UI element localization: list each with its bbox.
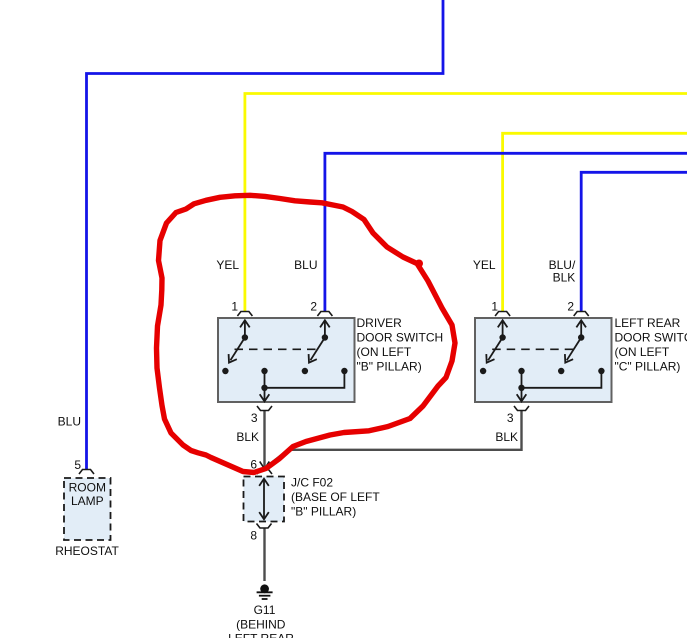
ground G11 symbol	[257, 584, 273, 599]
left rear switch arrow contact pin 1	[498, 320, 508, 337]
svg-text:"B" PILLAR): "B" PILLAR)	[291, 505, 356, 519]
left rear switch common contact dot	[518, 368, 524, 374]
wire BLU from top to room lamp rheostat pin 5	[87, 0, 444, 470]
driver switch arm 1 with arrowhead	[229, 338, 245, 363]
svg-text:"B" PILLAR): "B" PILLAR)	[357, 360, 422, 374]
driver switch right contact dot	[341, 368, 347, 374]
left rear switch arrow contact pin 2	[576, 320, 586, 337]
svg-text:BLU: BLU	[294, 258, 317, 272]
J/C F02 internal double-ended arrow	[259, 479, 269, 520]
svg-text:8: 8	[250, 529, 257, 543]
svg-text:(BEHIND: (BEHIND	[236, 618, 286, 632]
driver switch common contact dot	[261, 368, 267, 374]
svg-text:BLK: BLK	[495, 430, 518, 444]
svg-text:1: 1	[491, 300, 498, 314]
room lamp rheostat box	[64, 478, 111, 540]
svg-text:3: 3	[507, 411, 514, 425]
svg-text:LEFT REAR: LEFT REAR	[615, 316, 681, 330]
driver switch lower contact dot (mid-left)	[302, 368, 308, 374]
wire BLU/BLK to left rear door switch pin 2	[581, 172, 687, 311]
svg-text:5: 5	[74, 458, 81, 472]
svg-text:(BASE OF LEFT: (BASE OF LEFT	[291, 490, 380, 504]
driver switch arm 2 with arrowhead	[309, 338, 325, 363]
wire BLU to driver door switch pin 2	[325, 153, 687, 311]
red hand-drawn highlight loop around driver door switch	[157, 195, 456, 472]
left rear door switch label text	[615, 316, 687, 374]
connector dome at left rear switch pin 2	[574, 312, 589, 317]
svg-text:DOOR SWITCH: DOOR SWITCH	[615, 331, 687, 345]
svg-text:DOOR SWITCH: DOOR SWITCH	[357, 331, 444, 345]
wire YEL to left rear door switch pin 1	[503, 133, 687, 311]
connector dome at room lamp pin 5	[79, 470, 94, 475]
left rear switch movable contact dot (pin2 side)	[578, 334, 584, 340]
connector dome at left rear switch pin 1	[495, 312, 510, 317]
left rear door switch box	[475, 318, 612, 402]
driver switch common link wire	[265, 371, 345, 388]
driver switch output arrow to pin 3	[260, 388, 270, 402]
left rear switch output arrow to pin 3	[517, 388, 527, 402]
connector dome at driver switch pin 1	[237, 312, 252, 317]
room lamp label text	[69, 481, 106, 509]
driver switch dashed gang line	[235, 348, 319, 350]
left rear switch movable contact dot (pin1 side)	[499, 334, 505, 340]
svg-text:BLK: BLK	[236, 430, 259, 444]
svg-text:G11: G11	[254, 603, 276, 617]
svg-text:ROOM: ROOM	[69, 481, 106, 495]
connector dome at J/C F02 pin 6	[257, 470, 272, 475]
wire YEL to driver door switch pin 1	[245, 94, 687, 312]
svg-text:DRIVER: DRIVER	[357, 316, 403, 330]
left rear switch arm 2 with arrowhead	[565, 338, 581, 363]
driver switch lower contact dot (left)	[222, 368, 228, 374]
svg-text:LEFT REAR: LEFT REAR	[228, 632, 294, 638]
driver switch arrow contact pin 1	[240, 320, 250, 337]
left rear switch right contact dot	[598, 368, 604, 374]
svg-text:(ON LEFT: (ON LEFT	[615, 345, 670, 359]
J/C F02 label text	[291, 475, 380, 518]
driver door switch label text	[357, 316, 444, 374]
J/C F02 junction connector box	[244, 477, 285, 522]
svg-text:BLU: BLU	[58, 415, 81, 429]
red loop pen blob	[415, 260, 423, 268]
svg-text:J/C F02: J/C F02	[291, 475, 333, 489]
connector dome at driver switch pin 2	[317, 312, 332, 317]
connector cup at driver switch pin 3	[257, 406, 272, 411]
driver switch movable contact dot (pin1 side)	[242, 334, 248, 340]
connector cup at J/C F02 pin 8	[257, 524, 272, 529]
left rear switch dashed gang line	[492, 348, 575, 350]
wire BLK from driver switch pin 3 to junction 6	[263, 411, 265, 469]
left rear switch arm 1 with arrowhead	[486, 338, 502, 363]
svg-text:LAMP: LAMP	[71, 494, 104, 508]
svg-text:YEL: YEL	[216, 258, 239, 272]
wire BLK from J/C F02 pin 8 to ground G11	[263, 529, 265, 582]
driver switch arrow contact pin 2	[320, 320, 330, 337]
svg-text:BLK: BLK	[553, 271, 576, 285]
wire BLK from left rear switch pin 3 to junction 6	[266, 411, 522, 468]
left rear switch lower contact dot (left)	[480, 368, 486, 374]
left rear switch link junction dot	[518, 385, 524, 391]
svg-text:RHEOSTAT: RHEOSTAT	[55, 544, 119, 558]
left rear switch common link wire	[522, 371, 602, 388]
svg-text:YEL: YEL	[473, 258, 496, 272]
driver switch link junction dot	[261, 385, 267, 391]
svg-text:(ON LEFT: (ON LEFT	[357, 345, 412, 359]
driver door switch box	[218, 318, 355, 402]
junction 6 arrow into J/C F02	[260, 462, 270, 469]
driver switch movable contact dot (pin2 side)	[322, 334, 328, 340]
svg-text:"C" PILLAR): "C" PILLAR)	[615, 360, 681, 374]
svg-text:2: 2	[567, 300, 574, 314]
svg-text:1: 1	[231, 300, 238, 314]
svg-text:3: 3	[251, 411, 258, 425]
connector cup at left rear switch pin 3	[514, 406, 529, 411]
left rear switch lower contact dot (mid-left)	[558, 368, 564, 374]
ground G11 label text	[228, 603, 294, 638]
svg-text:2: 2	[310, 300, 317, 314]
